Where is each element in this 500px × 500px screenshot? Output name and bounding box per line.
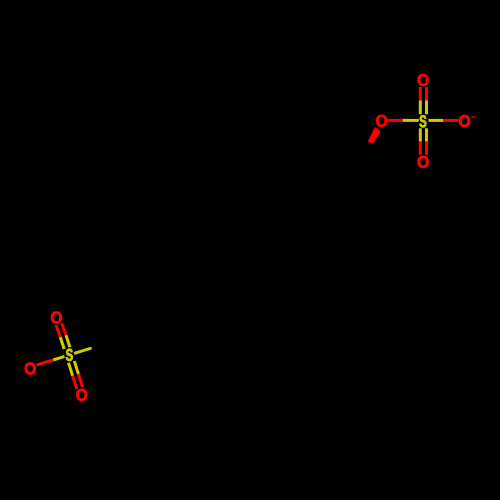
wedge bond C3-O3 (stereo wedge, red half) [368,127,380,143]
atom label O2 (bottom) [418,156,429,168]
bond S2=O7 double (down) [69,363,73,376]
atom label O5 (top) [51,312,62,324]
atom label S1 [419,115,426,127]
atom label S2 [66,349,73,361]
atom label O4 (O minus) [459,115,470,127]
bond S1=O2 double (down) [419,128,422,141]
atom label O1 (top) [418,74,429,86]
minus charge on O4 [471,116,475,117]
bond S2-O6 single (to left O) [53,356,64,360]
bond S1=O1 double (up) [419,87,422,101]
bond S2-C8 single (yellow half, carbon half invisible) [74,348,92,353]
atom label O6 (left) [25,363,36,375]
bond S1-O4 single (to O minus) [429,119,444,122]
atom label O7 (bottom) [76,389,87,401]
bond S2=O5 double (up) [56,325,60,337]
atom label O3 (ester oxygen) [376,115,387,127]
bond O3-S1 single (ester O to S) [388,119,403,122]
